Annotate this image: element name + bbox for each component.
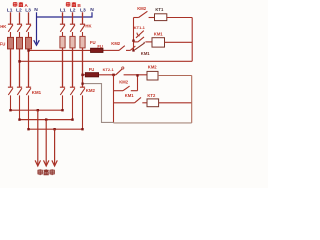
- junction feed / left bus2: [112, 74, 115, 77]
- svg-text:KM2: KM2: [148, 65, 158, 70]
- delay mark KT2-1: [122, 67, 124, 69]
- rung KT2: KM1 NC contact: [114, 97, 148, 102]
- rung1 wire to right bus: [167, 17, 192, 19]
- junctions line C: [27, 128, 29, 130]
- fuse FU L2-A: [17, 37, 23, 49]
- fuse FU L3-B: [80, 36, 85, 48]
- block2 left bus: [113, 75, 115, 123]
- control line 2 from L2-A (return bus): [20, 60, 193, 62]
- main contacts KM2 (3 poles): [60, 87, 85, 129]
- svg-text:HK: HK: [0, 24, 7, 29]
- label 电源B (power source B): [66, 2, 81, 9]
- wire L3-A fuse to contact: [28, 49, 30, 87]
- junctions line B: [18, 118, 20, 120]
- rung2: KM1 coil line: [134, 37, 153, 42]
- wire L1-B top: [62, 12, 64, 24]
- junction riser / feed: [136, 74, 138, 76]
- block1 right bus: [191, 18, 193, 62]
- coil KM1: [152, 38, 165, 47]
- wire L1-A top: [10, 12, 12, 24]
- fuse FU L1-B: [60, 36, 65, 48]
- svg-text:KM2: KM2: [86, 88, 96, 93]
- control line 1 from L3-A: [29, 46, 136, 51]
- label 电源A (power source A): [13, 2, 28, 9]
- block2 bottom return: [114, 122, 192, 124]
- contact KM2 self-holding branch: [114, 75, 138, 90]
- svg-text:KT2: KT2: [147, 93, 156, 98]
- svg-text:KT2-1: KT2-1: [103, 67, 115, 72]
- junction L3-B / feed: [81, 74, 84, 77]
- junction L3-B / gray tap: [81, 83, 83, 85]
- svg-text:KM2: KM2: [119, 79, 129, 84]
- load feeder 1 with arrow: [35, 110, 40, 166]
- knife switch HK source A (3 poles): [8, 24, 31, 37]
- fuse FU block2 feed: [85, 73, 98, 77]
- phase labels L1 L2 L3 N (source A): [7, 7, 38, 13]
- svg-text:HK: HK: [85, 24, 92, 29]
- junction L3-A / line1: [27, 49, 30, 52]
- junction L2-A / line2: [18, 60, 21, 63]
- wire L3-B fuse to contact: [82, 48, 84, 87]
- contact KT1-1 (time delay): [136, 31, 144, 38]
- svg-text:KM1: KM1: [141, 51, 151, 56]
- wire L3-A top: [28, 12, 30, 24]
- phase merge bus line B (L2): [20, 119, 73, 121]
- rung KT2 wire to right bus2: [159, 102, 192, 104]
- block2 feed line from L3-B: [83, 69, 148, 75]
- coil KM2: [147, 71, 158, 80]
- svg-text:L1: L1: [7, 8, 13, 14]
- load feeder 3 with arrow: [52, 129, 57, 166]
- node block1 bus mid: [132, 40, 134, 42]
- fuse FU L3-A: [26, 37, 32, 49]
- rung1: KM2 NC contact: [134, 11, 155, 17]
- wire L1-B fuse to contact: [62, 48, 64, 87]
- fuse FU L2-B: [70, 36, 75, 48]
- svg-text:KM1: KM1: [154, 31, 164, 36]
- wire L2-B fuse to contact: [72, 48, 74, 87]
- wire L2-A fuse to contact: [19, 49, 21, 87]
- fuse FU control line 1: [91, 48, 104, 52]
- label 接负载 (to load): [38, 169, 55, 175]
- wire L3-B top: [82, 12, 84, 24]
- svg-text:FU: FU: [0, 42, 5, 47]
- svg-text:KM2: KM2: [137, 6, 147, 11]
- svg-text:FU: FU: [90, 40, 96, 45]
- junctions line A: [9, 109, 11, 111]
- knife switch HK source B (3 poles): [60, 24, 85, 36]
- neutral wire N (blue) with down arrow: [34, 12, 92, 45]
- wire KM2 coil to right bus2: [158, 75, 192, 77]
- svg-text:KM2: KM2: [111, 41, 121, 46]
- block2 right bus: [191, 76, 193, 123]
- coil KT2: [147, 99, 159, 107]
- svg-text:FU: FU: [89, 67, 95, 72]
- phase labels L1 L2 L3 N (source B): [60, 7, 94, 13]
- gray tap from L3-B to block2 bottom: [83, 84, 114, 123]
- main contacts KM1 (3 poles): [8, 87, 31, 129]
- svg-text:KM1: KM1: [125, 93, 135, 98]
- phase merge bus line A (L1): [11, 109, 63, 111]
- contact KM1 self-holding: [135, 42, 144, 50]
- svg-text:KM1: KM1: [32, 90, 42, 95]
- fuse FU L1-A: [8, 37, 14, 49]
- svg-text:KT1: KT1: [155, 7, 164, 12]
- wire L2-A top: [19, 12, 21, 24]
- block1 left bus: [133, 18, 135, 51]
- load feeder 2 with arrow: [44, 120, 49, 166]
- svg-text:FU: FU: [97, 44, 103, 49]
- phase merge bus line C (L3): [29, 128, 83, 130]
- rung2 wire to right bus: [165, 41, 193, 43]
- coil KT1: [155, 14, 167, 21]
- svg-text:KT1-1: KT1-1: [134, 25, 146, 30]
- wire L2-B top: [72, 12, 74, 24]
- wire L1-A fuse to contact: [10, 49, 12, 87]
